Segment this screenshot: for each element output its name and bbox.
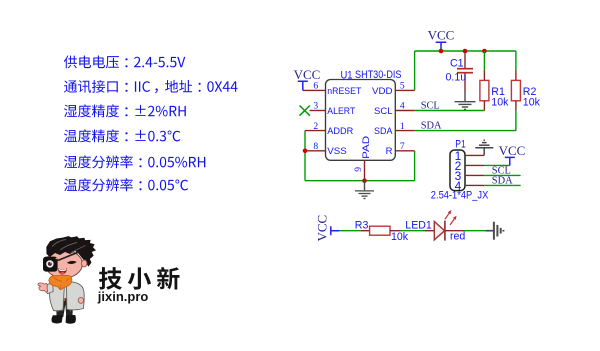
junction: C1 on top rail	[463, 49, 468, 54]
mascot cartoon figure	[38, 236, 96, 324]
P1 pin 3 with SCL net label	[455, 165, 521, 182]
resistor R1 10k	[480, 51, 509, 111]
svg-text:PAD: PAD	[361, 136, 372, 159]
svg-text:SDA: SDA	[421, 121, 442, 132]
logo text 技小新	[99, 267, 180, 290]
svg-text:ADDR: ADDR	[327, 126, 353, 137]
spec text line 2: 通讯接口：IIC，地址：0X44	[64, 80, 238, 93]
pin 1 SDA	[374, 121, 415, 137]
spec text line 4: 温度精度：±0.3℃	[64, 129, 180, 142]
svg-text:7: 7	[400, 141, 405, 152]
pin 9 PAD	[353, 136, 372, 181]
svg-text:ALERT: ALERT	[327, 106, 355, 117]
pin 8 VSS	[305, 141, 347, 157]
svg-text:4: 4	[455, 179, 462, 193]
svg-text:R3: R3	[355, 220, 369, 232]
ground: above P1 pin 1	[475, 140, 493, 155]
wire: ADDR/VSS down to ground rail	[304, 131, 306, 181]
connector P1 2.54-1*4P_JX body	[431, 139, 489, 202]
svg-text:10k: 10k	[391, 231, 409, 243]
svg-text:SHT30-DIS: SHT30-DIS	[355, 69, 402, 81]
power flag VCC (top, above C1/R1/R2 rail)	[428, 28, 455, 51]
svg-text:red: red	[450, 231, 465, 243]
spec text line 1: 供电电压：2.4-5.5V	[64, 56, 186, 69]
svg-text:1: 1	[400, 121, 405, 132]
ground: right of LED1 (rotated)	[485, 222, 503, 240]
svg-text:VCC: VCC	[499, 143, 526, 158]
svg-text:2: 2	[313, 121, 318, 132]
svg-text:10k: 10k	[491, 97, 509, 109]
svg-text:nRESET: nRESET	[327, 86, 361, 97]
svg-text:3: 3	[313, 101, 318, 112]
ground: below chip PAD	[355, 181, 374, 199]
P1 pin 1	[455, 149, 485, 163]
svg-text:LED1: LED1	[405, 219, 432, 231]
svg-text:VCC: VCC	[428, 28, 455, 43]
svg-text:VCC: VCC	[315, 215, 330, 242]
P1 pin 4 with SDA net label	[455, 175, 521, 192]
svg-text:SDA: SDA	[374, 126, 393, 137]
svg-text:9: 9	[353, 167, 364, 172]
wire: SCL net with label	[415, 101, 485, 112]
resistor R2 10k	[511, 51, 540, 131]
pin 7 R	[386, 141, 415, 157]
junction: PAD on ground rail	[362, 178, 367, 183]
pin 5 VDD	[372, 81, 415, 97]
logo text jixin.pro	[97, 289, 149, 304]
svg-text:VCC: VCC	[294, 67, 321, 82]
LED1 red	[405, 210, 465, 243]
svg-text:SDA: SDA	[492, 175, 513, 186]
svg-text:4: 4	[400, 101, 405, 112]
power flag VCC (at P1 pin 2)	[499, 143, 526, 165]
ground: below C1	[455, 91, 476, 110]
svg-text:6: 6	[313, 81, 318, 92]
pin 6 nRESET	[303, 81, 362, 97]
resistor R3 10k	[355, 220, 409, 243]
wire: bottom ground rail	[305, 180, 415, 182]
pin 3 ALERT with no-connect X	[300, 101, 356, 117]
junction: VCC stem on top rail	[439, 49, 444, 54]
spec text line 3: 湿度精度：±2%RH	[64, 104, 186, 117]
svg-text:U1: U1	[341, 69, 353, 81]
wire: R3 to LED1	[401, 230, 425, 232]
svg-text:SCL: SCL	[374, 106, 393, 117]
svg-text:VDD: VDD	[372, 86, 393, 97]
junction: R1 on top rail	[482, 49, 487, 54]
svg-text:10k: 10k	[523, 97, 541, 109]
svg-text:5: 5	[400, 81, 405, 92]
svg-text:0.1u: 0.1u	[446, 72, 467, 84]
power flag VCC (LED row, rotated)	[315, 215, 340, 242]
junction: VSS on vertical wire	[303, 149, 308, 154]
svg-text:8: 8	[313, 141, 318, 152]
spec text line 6: 温度分辨率：0.05℃	[64, 178, 188, 191]
wire: rail down to VDD pin 5	[414, 51, 416, 90]
svg-text:C1: C1	[450, 58, 464, 70]
pin 2 ADDR	[305, 121, 353, 137]
svg-text:jixin.pro: jixin.pro	[97, 289, 149, 304]
svg-text:SCL: SCL	[421, 101, 440, 112]
capacitor C1 0.1u	[446, 51, 474, 91]
wire: VCC to R3	[339, 230, 361, 232]
wire: pin 7 down to ground rail	[414, 151, 416, 181]
pin 4 SCL	[374, 101, 415, 117]
spec text line 5: 湿度分辨率：0.05%RH	[64, 155, 205, 168]
P1 pin 2	[455, 159, 510, 173]
wire: LED1 to ground	[464, 230, 486, 232]
power flag VCC (left, at nRESET)	[294, 67, 321, 90]
svg-text:VSS: VSS	[327, 146, 347, 157]
svg-text:R: R	[386, 146, 393, 157]
IC U1 SHT30-DIS body	[326, 69, 402, 160]
wire: VCC top rail	[415, 50, 516, 52]
wire: SDA net with label	[415, 121, 516, 132]
